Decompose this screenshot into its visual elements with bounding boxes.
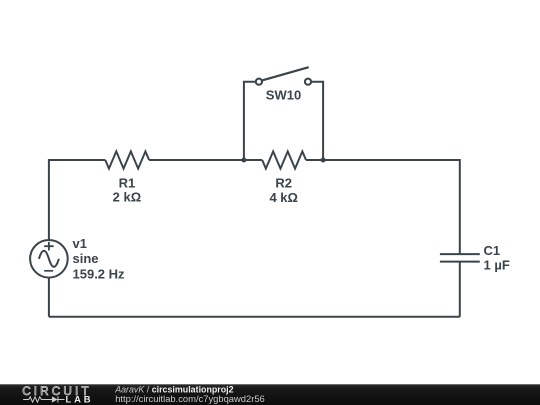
svg-text:159.2 Hz: 159.2 Hz	[73, 266, 126, 281]
wire bottom run	[49, 316, 460, 318]
svg-text:1 µF: 1 µF	[484, 258, 510, 273]
logo resistor zigzag and diode line	[23, 396, 64, 402]
svg-text:v1: v1	[73, 236, 87, 251]
resistor R2	[262, 151, 306, 168]
wire bottom-left vertical to v1	[48, 278, 50, 317]
v1 minus sign	[44, 270, 53, 272]
v1 plus sign	[44, 242, 53, 251]
wire R2 to node B	[306, 159, 323, 161]
wire R1 to node A	[149, 159, 244, 161]
switch SW10 left branch wire	[244, 82, 256, 160]
footer bar	[0, 384, 540, 405]
node B junction dot	[321, 158, 326, 163]
svg-text:http://circuitlab.com/c7ygbqaw: http://circuitlab.com/c7ygbqawd2r56	[115, 393, 265, 404]
switch SW10 lever	[262, 67, 309, 80]
v1 sine symbol	[39, 251, 59, 267]
resistor R1	[105, 151, 149, 168]
switch SW10 left terminal	[256, 79, 262, 85]
voltage source v1 circle	[30, 240, 68, 278]
wire C1 bottom to bottom-right corner	[459, 262, 461, 317]
svg-text:sine: sine	[73, 251, 99, 266]
wire node A to R2	[244, 159, 262, 161]
svg-text:R2: R2	[275, 176, 292, 191]
node A junction dot	[241, 158, 246, 163]
logo diode triangle	[52, 396, 58, 402]
svg-text:LAB: LAB	[66, 394, 94, 405]
svg-text:2 kΩ: 2 kΩ	[113, 190, 142, 205]
switch SW10 right terminal	[305, 79, 311, 85]
switch SW10 right branch wire	[311, 82, 323, 160]
svg-text:SW10: SW10	[266, 88, 301, 103]
svg-text:C1: C1	[484, 243, 501, 258]
wire top-left corner (left vertical + top run to R1)	[49, 160, 105, 240]
wire node B to top-right corner down to C1	[323, 160, 460, 254]
svg-text:R1: R1	[119, 176, 136, 191]
capacitor C1	[440, 254, 480, 262]
svg-text:4 kΩ: 4 kΩ	[269, 190, 298, 205]
